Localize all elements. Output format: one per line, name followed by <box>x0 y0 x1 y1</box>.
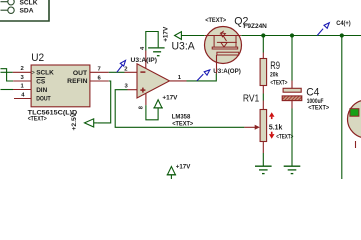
LED pin <box>355 141 357 148</box>
svg-text:8: 8 <box>139 106 145 109</box>
RV1 down marker <box>269 132 275 139</box>
minus symbol <box>140 71 145 73</box>
Q2 source tap <box>213 36 215 48</box>
wire to U2 pin2 (SCLK) <box>1 71 13 73</box>
svg-text:<TEXT>: <TEXT> <box>270 80 287 87</box>
svg-text:LM358: LM358 <box>172 114 191 121</box>
svg-text:REFIN: REFIN <box>67 78 88 85</box>
wire C4 to ground <box>291 109 293 167</box>
wire to U2 pin1 (DIN) <box>1 89 14 91</box>
svg-text:RV1: RV1 <box>243 93 259 104</box>
op-amp U3:A triangle <box>137 64 170 98</box>
wire pin4 to ground <box>146 32 158 51</box>
svg-text:+17V: +17V <box>162 94 178 101</box>
terminal SDA <box>1 7 15 13</box>
wire rail to C4 <box>291 36 293 81</box>
Q2 drain tap <box>235 36 237 48</box>
svg-text:<TEXT>: <TEXT> <box>276 134 293 141</box>
wire rail to R9 <box>262 36 264 53</box>
svg-text:<TEXT>: <TEXT> <box>28 115 47 122</box>
svg-text:OUT: OUT <box>73 70 87 77</box>
U2 pin 2 stub <box>13 71 31 73</box>
junction node C4 <box>290 33 294 37</box>
wire OUT to op-amp <box>109 71 125 73</box>
op-amp pin 4 stub (top) <box>145 51 147 69</box>
wire R9 to RV1 <box>262 94 264 101</box>
svg-text:U2: U2 <box>31 52 44 64</box>
wire output to Q2 gate <box>187 74 217 81</box>
Q2 body diode triangle <box>221 43 227 48</box>
op-amp pin 3 stub <box>128 89 138 91</box>
U2 chip body <box>31 65 90 107</box>
Q2 channel bar <box>212 47 238 49</box>
svg-text:C4: C4 <box>306 87 319 99</box>
svg-text:SDA: SDA <box>20 8 34 15</box>
svg-text:>: > <box>31 71 35 77</box>
transistor Q2 body circle <box>205 27 242 64</box>
svg-text:20k: 20k <box>270 72 279 79</box>
op-amp pin 8 stub (bottom) <box>145 93 147 105</box>
Q2 source arrow <box>220 31 227 41</box>
junction node R9 <box>261 33 265 37</box>
svg-text:<TEXT>: <TEXT> <box>308 105 329 112</box>
U2 pin 1 stub <box>13 89 31 91</box>
wire right junction down <box>341 36 343 180</box>
resistor R9 <box>262 53 264 59</box>
subcircuit box top-left <box>0 0 49 21</box>
ground bars (op-amp V-) <box>148 48 165 56</box>
svg-text:<TEXT>: <TEXT> <box>205 17 226 24</box>
wire to U2 pin3 (CS) with jog <box>1 69 14 81</box>
svg-text:+2.5V: +2.5V <box>71 112 78 131</box>
terminal +17V (op-amp V+) up arrow <box>153 100 163 108</box>
terminal +2.5V arrow <box>85 119 94 127</box>
potentiometer RV1 <box>262 101 264 110</box>
svg-text:U3:A(OP): U3:A(OP) <box>213 69 241 75</box>
junction node right <box>340 33 344 37</box>
svg-text:CS: CS <box>36 78 46 85</box>
op-amp output pin 1 stub <box>170 80 187 82</box>
U2 pin 7 stub <box>90 71 109 73</box>
probe U3:A(OP) <box>197 70 210 81</box>
terminal +17V bottom up arrow <box>167 167 176 180</box>
wire op-amp pin3 from RV1 wiper <box>115 90 244 128</box>
svg-text:F9Z24N: F9Z24N <box>243 23 267 30</box>
probe U3:A(IP) <box>117 60 126 72</box>
op-amp pin 2 stub <box>125 71 138 73</box>
U2 pin 6 stub <box>90 80 109 82</box>
terminal +17V left arrow (rail) <box>175 32 182 40</box>
wire REFIN down to +2.5V <box>97 81 110 123</box>
svg-text:DOUT: DOUT <box>36 96 51 103</box>
Q2 gate pin <box>216 55 218 74</box>
svg-text:SCLK: SCLK <box>36 70 54 77</box>
Q2 inner bar <box>217 41 237 43</box>
svg-text:C4(+): C4(+) <box>336 21 351 27</box>
wire rail to Q2 <box>181 35 204 37</box>
Q2 gate plate <box>217 52 239 55</box>
ground (below C4) <box>284 166 301 173</box>
RV1 wiper <box>244 126 255 128</box>
rail right of Q2 <box>241 35 361 37</box>
svg-text:5.1k: 5.1k <box>269 122 283 131</box>
svg-text:+17V: +17V <box>176 163 191 170</box>
svg-text:<TEXT>: <TEXT> <box>172 121 193 128</box>
capacitor C4 <box>291 81 293 89</box>
svg-text:U3:A(IP): U3:A(IP) <box>131 58 158 64</box>
U2 pin 3 stub <box>13 80 31 82</box>
probe C4(+) <box>317 23 329 36</box>
wire pin8 to +17V terminal <box>146 105 158 120</box>
U2 pin 4 stub (unconnected) <box>14 98 31 100</box>
svg-text:+17V: +17V <box>163 26 170 42</box>
svg-text:U3:A: U3:A <box>172 41 196 53</box>
plus symbol <box>140 88 145 93</box>
svg-text:R9: R9 <box>270 60 280 72</box>
LED D4 (partial, right edge) <box>348 100 361 138</box>
terminal SCLK <box>1 0 15 5</box>
ground (below RV1) <box>255 166 272 173</box>
RV1 up marker <box>269 112 275 119</box>
svg-text:DIN: DIN <box>36 87 47 94</box>
svg-text:SCLK: SCLK <box>20 0 38 6</box>
wire RV1 to ground <box>262 153 264 166</box>
Q2 internal source-drain line <box>205 35 241 37</box>
